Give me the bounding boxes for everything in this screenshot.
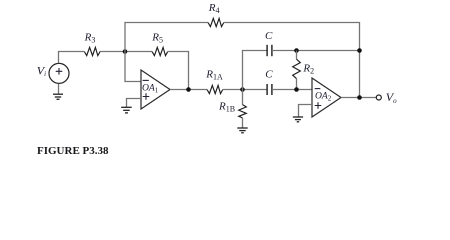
svg-text:C: C xyxy=(265,69,273,81)
resistor R4 xyxy=(208,2,224,26)
ground (OA1 +) xyxy=(121,107,132,113)
op-amp OA1 xyxy=(141,70,170,109)
wire OA2 plus input to ground xyxy=(299,105,313,118)
wire upper C to node C to right rail xyxy=(272,50,360,52)
svg-text:C: C xyxy=(265,30,273,42)
wire Vi bottom lead xyxy=(58,84,60,95)
wire R5 down to OA1 output node xyxy=(168,52,189,90)
resistor R1B xyxy=(218,90,246,129)
capacitor C (lower) xyxy=(265,69,273,95)
OA1 output junction xyxy=(186,87,191,92)
node A junction xyxy=(123,49,128,54)
wire R4 to right rail down to output xyxy=(224,23,360,98)
ground (R1B) xyxy=(237,128,247,133)
output terminal Vo xyxy=(376,90,397,105)
wire OA1 plus input to ground xyxy=(127,99,142,108)
wire node A up to top rail xyxy=(125,23,208,52)
resistor R5 xyxy=(151,32,168,56)
wire Vi top lead to R3 xyxy=(59,52,85,64)
resistor R3 xyxy=(84,32,101,56)
voltage source Vi xyxy=(37,63,69,83)
wire OA1 output to R1A xyxy=(170,89,207,91)
resistor R2 xyxy=(293,51,314,90)
ground (Vi) xyxy=(53,94,63,99)
wire node A down to OA1 inverting input xyxy=(125,52,141,82)
capacitor C (upper) xyxy=(265,30,273,56)
junction OA2 output / right rail xyxy=(357,95,362,100)
wire lower C to node D to OA2 inverting input xyxy=(272,89,312,91)
svg-text:FIGURE P3.38: FIGURE P3.38 xyxy=(37,145,109,157)
op-amp OA2 xyxy=(312,78,341,117)
resistor R1A xyxy=(205,68,223,93)
node B junction xyxy=(240,87,245,92)
wire R3 to node A to R5 xyxy=(100,51,152,53)
wire OA2 output to terminal xyxy=(341,97,376,99)
wire node B up to upper C branch xyxy=(243,51,268,90)
ground (OA2 +) xyxy=(293,117,303,122)
wire R1A to node B to lower C xyxy=(223,89,267,91)
node D junction xyxy=(294,87,299,92)
junction on right rail xyxy=(357,48,362,53)
node C junction xyxy=(294,48,299,53)
